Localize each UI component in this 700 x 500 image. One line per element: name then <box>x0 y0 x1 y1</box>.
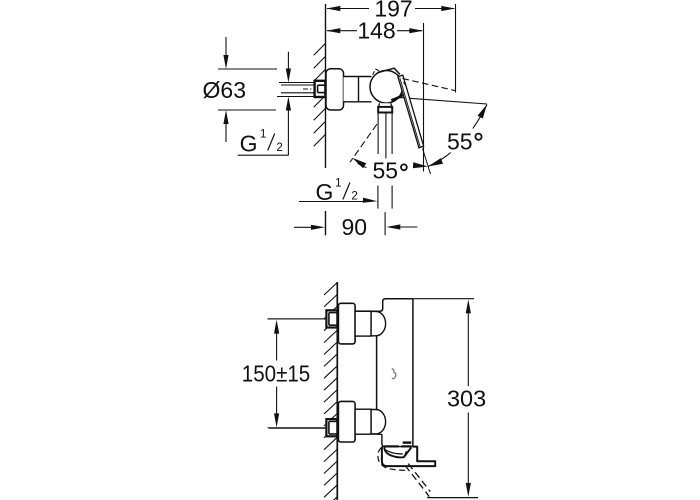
svg-text:2: 2 <box>351 191 357 203</box>
svg-text:1: 1 <box>260 129 266 141</box>
svg-text:303: 303 <box>447 385 486 411</box>
svg-text:90: 90 <box>342 214 368 240</box>
svg-text:1: 1 <box>335 178 341 190</box>
svg-text:Ø63: Ø63 <box>203 77 246 103</box>
svg-text:G: G <box>315 179 333 205</box>
svg-text:55: 55 <box>373 158 399 184</box>
svg-text:G: G <box>240 131 258 157</box>
svg-text:150±15: 150±15 <box>242 360 311 386</box>
svg-text:55: 55 <box>447 129 473 155</box>
svg-text:2: 2 <box>276 142 282 154</box>
svg-text:148: 148 <box>357 18 395 44</box>
